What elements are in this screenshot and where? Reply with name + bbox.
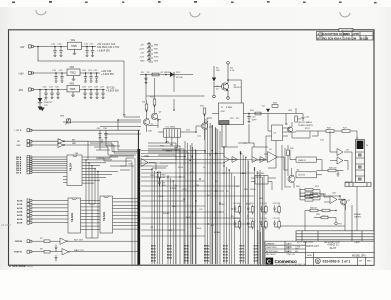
gate U11 mid <box>141 159 156 171</box>
wire control signal stubs <box>148 143 188 168</box>
svg-text:SIZE: SIZE <box>307 255 312 257</box>
svg-text:C: C <box>267 260 271 266</box>
svg-text:7812: 7812 <box>70 70 76 74</box>
svg-text:BMR2: BMR2 <box>204 251 209 253</box>
capacitor C28 rail3 out <box>95 90 99 99</box>
svg-text:LB-4601: LB-4601 <box>1 223 11 227</box>
wire ladder bus <box>300 190 326 200</box>
wire bus group F <box>241 152 249 264</box>
svg-text:8 MHZ: 8 MHZ <box>226 107 233 109</box>
ground below D1 <box>38 107 43 111</box>
svg-text:NMI: NMI <box>242 173 246 175</box>
delay element hatched <box>220 121 230 125</box>
wire right rail <box>296 131 357 140</box>
capacitor C44 <box>301 114 304 122</box>
wire U15 U16 links <box>290 150 322 175</box>
svg-text:BCT0: BCT0 <box>223 260 228 262</box>
wire extra mid verticals <box>176 125 264 264</box>
capacitor C10 <box>247 114 251 123</box>
wire bus group D <box>205 119 218 264</box>
node TP1 <box>335 222 338 225</box>
junction dots right lower <box>304 195 340 211</box>
capacitor C24 rail3 <box>50 90 54 99</box>
wire R19 down <box>287 156 289 171</box>
capacitor C34 <box>144 75 147 84</box>
resistor R28 <box>321 216 328 219</box>
svg-text:D0: D0 <box>203 167 205 169</box>
svg-text:50: 50 <box>366 145 368 147</box>
svg-text:A: A <box>317 32 319 36</box>
parts list text <box>297 241 360 248</box>
wire left-of-bus verticals <box>132 158 135 265</box>
transistor Q4 <box>201 123 207 129</box>
svg-text:R32 1K: R32 1K <box>310 207 317 209</box>
capacitor C15 rail1 <box>59 47 63 57</box>
diode D4 <box>266 109 270 113</box>
capacitor C21 rail2 out <box>89 73 93 82</box>
wire XTAL rail <box>212 113 262 115</box>
crystal labels <box>221 107 258 122</box>
svg-text:A12: A12 <box>215 180 218 183</box>
wire U3 right pins to bus <box>113 199 138 230</box>
voltage regulator VR2 7812 <box>67 69 80 76</box>
inverter gate U12a <box>58 139 70 144</box>
svg-text:VBB: VBB <box>154 53 159 55</box>
svg-text:STAT IN: STAT IN <box>14 251 22 254</box>
resistor R10 <box>145 104 148 110</box>
junction dots mid mesh <box>175 150 255 213</box>
gate U6c <box>252 157 264 163</box>
resistor R12 <box>203 108 206 114</box>
transistor Q1 <box>221 83 228 90</box>
wire R1 rail <box>140 74 193 76</box>
svg-text:7400: 7400 <box>168 230 172 232</box>
RC network row2 col1 <box>233 218 241 230</box>
wire link R1 to Q2 <box>146 75 174 101</box>
size letter circle <box>315 259 320 264</box>
wire right lower rail 1 <box>300 188 340 199</box>
capacitor C14 rail1 <box>53 47 57 57</box>
RC network row2 col3 <box>259 218 267 230</box>
node K terminal <box>227 97 230 100</box>
resistor R27 <box>342 130 350 133</box>
svg-text:PARTS LIST: PARTS LIST <box>306 245 320 248</box>
wire horizontal fanout mesh <box>141 151 254 237</box>
cluster labels <box>250 103 314 135</box>
resistor R8 <box>44 250 50 253</box>
svg-text:-16V: -16V <box>18 89 23 92</box>
R1 line labels <box>141 72 184 79</box>
wire data input stack DI0-DI7 <box>32 157 67 172</box>
wire U9 inputs <box>330 131 352 182</box>
svg-text:74S04: 74S04 <box>196 228 201 230</box>
svg-text:1N4742: 1N4742 <box>44 102 52 104</box>
resistor R7 <box>44 240 50 243</box>
diode D2 <box>170 72 174 77</box>
svg-text:B-1180: B-1180 <box>361 36 369 40</box>
capacitor C16 rail1 out <box>85 47 89 57</box>
wire misc analog <box>96 150 180 170</box>
svg-text:2N2222: 2N2222 <box>284 187 292 189</box>
wire INT run <box>32 140 58 142</box>
svg-text:74LS244: 74LS244 <box>103 211 106 221</box>
svg-text:PHI: PHI <box>196 185 200 187</box>
svg-text:POC: POC <box>176 72 181 74</box>
svg-text:023-0062-S 1 of 1: 023-0062-S 1 of 1 <box>323 260 351 264</box>
node connector pins DI0-DI7 <box>27 156 32 174</box>
svg-text:U21: U21 <box>150 227 153 229</box>
svg-text:+ 6.8UF 35V: + 6.8UF 35V <box>101 74 114 76</box>
svg-text:BA01: BA01 <box>167 247 172 250</box>
svg-text:BCT1: BCT1 <box>223 248 228 250</box>
title block approvals text <box>266 246 301 256</box>
parts list table <box>296 231 374 244</box>
wire U7 pins <box>264 154 284 170</box>
revision strip box <box>317 32 374 41</box>
svg-text:QUICK TABLE: QUICK TABLE <box>298 121 313 124</box>
wire bus group G <box>255 168 263 264</box>
svg-text:BD03: BD03 <box>151 254 156 256</box>
svg-text:BA02: BA02 <box>167 250 172 253</box>
svg-text:C54 R34: C54 R34 <box>233 218 240 220</box>
bus group F labels <box>240 245 246 262</box>
left line labels <box>15 116 108 148</box>
svg-text:Cromemco: Cromemco <box>275 259 297 264</box>
svg-text:BD01: BD01 <box>151 248 156 250</box>
resistor R30 <box>328 169 336 172</box>
RC network row1 col2 <box>246 203 254 215</box>
capacitor C29 rail3 out <box>101 90 105 99</box>
capacitor C22 rail2 out <box>95 73 99 82</box>
scattered net labels mid mesh <box>146 156 263 234</box>
bus group A labels <box>151 245 157 262</box>
transistor Q2 <box>143 119 149 125</box>
capacitor C26 rail3 out <box>83 90 87 99</box>
gate U6d <box>260 157 266 163</box>
wire U1 pin vertical drops <box>86 160 98 238</box>
svg-text:NEXT ASSY: NEXT ASSY <box>266 253 277 256</box>
svg-text:+12V C32: +12V C32 <box>101 71 112 73</box>
wire rail1 VR1 output <box>82 46 97 48</box>
power flag +5V <box>147 43 153 47</box>
svg-text:A6 IN: A6 IN <box>17 222 23 225</box>
wire R5 branch <box>213 66 215 95</box>
svg-text:C52 R32: C52 R32 <box>259 203 266 205</box>
wire right lower rail 2 <box>305 205 352 231</box>
wire U5 pins <box>252 125 296 168</box>
svg-text:74S04: 74S04 <box>158 196 163 198</box>
wire bus group C <box>185 141 195 264</box>
svg-text:REV: REV <box>367 261 372 263</box>
svg-text:7400: 7400 <box>150 175 154 177</box>
bus group D labels <box>204 245 210 262</box>
svg-text:DRAWN: DRAWN <box>266 242 275 245</box>
svg-text:DATE: DATE <box>344 33 351 36</box>
svg-text:BSY1: BSY1 <box>240 248 245 250</box>
RC network row2 col4 <box>273 218 281 230</box>
svg-text:C50 R30: C50 R30 <box>233 203 240 205</box>
title block outer <box>265 241 374 265</box>
svg-text:A3 IN: A3 IN <box>17 211 23 214</box>
transistor Q6 <box>288 176 295 183</box>
node INT input <box>27 140 32 143</box>
svg-text:BMR3: BMR3 <box>204 254 209 256</box>
svg-text:C56 R36: C56 R36 <box>259 218 266 220</box>
svg-text:JWR IN: JWR IN <box>15 241 23 243</box>
wire bus group E <box>224 164 234 264</box>
box U8 one-shot <box>255 176 268 185</box>
svg-text:BCT3: BCT3 <box>223 254 228 256</box>
capacitor C35 bypass <box>98 130 101 139</box>
resistor R33 <box>322 209 330 212</box>
wire U1 lower left pins <box>63 177 67 183</box>
svg-text:A1 IN: A1 IN <box>17 203 23 206</box>
svg-text:R2 10K: R2 10K <box>176 77 184 79</box>
junction dots R1 line <box>145 74 167 76</box>
svg-text:+8V: +8V <box>20 46 25 49</box>
svg-text:GATES: GATES <box>354 216 361 219</box>
wire rail2 input <box>34 72 68 74</box>
ground R30 <box>336 174 339 176</box>
U15 U16 labels <box>290 148 337 177</box>
capacitor C37 <box>55 245 58 252</box>
wire L INT B run <box>32 129 140 131</box>
svg-text:BUSAK: BUSAK <box>163 212 170 215</box>
svg-text:APPROVED: APPROVED <box>266 250 279 253</box>
power flag GND <box>147 59 153 63</box>
svg-text:C57 R37: C57 R37 <box>273 218 280 220</box>
svg-text:7805: 7805 <box>71 44 77 48</box>
svg-text:RFSH: RFSH <box>178 167 184 169</box>
power flag -12V <box>147 55 153 59</box>
svg-text:SLOT: SLOT <box>330 246 337 250</box>
svg-text:BD05: BD05 <box>151 260 156 262</box>
svg-text:BSY3: BSY3 <box>240 254 245 256</box>
power section labels <box>18 40 120 107</box>
gate U9a <box>337 149 352 156</box>
RC network row1 col3 <box>259 203 267 215</box>
transistor Q5 <box>287 127 292 132</box>
R1 pull-up line <box>140 73 193 83</box>
svg-text:SH: SH <box>359 261 362 263</box>
svg-text:BD00: BD00 <box>151 245 156 247</box>
wire top rail to C44 <box>296 113 303 115</box>
svg-text:VR3: VR3 <box>70 84 75 86</box>
right column labels <box>305 128 349 226</box>
wire VR1 ground pin <box>73 49 76 54</box>
svg-text:APPD: APPD <box>352 33 359 36</box>
gate labels <box>14 238 85 254</box>
Q1 labels <box>216 68 242 91</box>
wire gate outputs right <box>70 141 92 145</box>
svg-text:DI7 B: DI7 B <box>16 172 22 174</box>
svg-text:BMR5: BMR5 <box>204 260 209 262</box>
capacitor C25 rail3 <box>56 90 60 99</box>
wire Q6 links <box>284 168 294 188</box>
svg-text:VBB: VBB <box>154 45 159 47</box>
ground top of left section <box>40 108 45 112</box>
svg-text:BD02: BD02 <box>151 251 156 253</box>
bus group B labels <box>167 244 173 259</box>
oscillator module box <box>219 103 244 125</box>
resistor R32 <box>310 209 318 212</box>
node rail3 -16V input terminal <box>29 88 34 91</box>
svg-text:R31 470: R31 470 <box>310 193 319 195</box>
svg-text:BSY2: BSY2 <box>240 251 245 253</box>
svg-text:4 MHZ 12: 4 MHZ 12 <box>327 243 339 247</box>
svg-text:BCT0: BCT0 <box>223 245 228 247</box>
capacitor C19 rail2 <box>60 73 64 82</box>
wire U1 right pins fanout <box>82 157 118 183</box>
svg-text:74LS74: 74LS74 <box>298 175 306 177</box>
svg-text:BSY0: BSY0 <box>240 245 245 247</box>
wire Q2 Q3 links <box>147 106 159 132</box>
wire Q1 emitter down <box>227 90 229 97</box>
junction dots analog <box>117 105 205 143</box>
wire address stack A0-A6 <box>32 201 68 223</box>
junction dots crystal <box>223 113 250 148</box>
wire +5V distribution loop <box>38 47 124 62</box>
svg-text:-12V: -12V <box>140 57 145 59</box>
wire osc rail continue <box>262 108 296 125</box>
resistor R17 <box>295 116 298 122</box>
RC network row2 col2 <box>246 218 254 230</box>
IC U1 Z80 buffer <box>67 155 82 186</box>
mid labels <box>144 142 178 188</box>
wire to parts table <box>280 226 345 231</box>
wire NMI run <box>32 144 58 146</box>
title block text <box>266 242 372 263</box>
power flag labels <box>139 45 159 63</box>
node E8 terminal <box>227 62 230 65</box>
diode D2 bar <box>173 72 175 77</box>
svg-text:10PF: 10PF <box>252 120 258 122</box>
power flag -5V <box>147 51 153 55</box>
bus group C labels <box>184 245 190 262</box>
svg-text:A15: A15 <box>211 224 214 227</box>
wire VR3 ground pin <box>71 92 74 97</box>
wire nested routing loops <box>88 61 141 160</box>
svg-text:NMI: NMI <box>72 143 76 145</box>
wire title block left drops <box>258 228 263 265</box>
wire U2 to U3 links <box>81 201 101 230</box>
wire rail3 input <box>34 89 68 91</box>
svg-text:R30 470: R30 470 <box>329 167 337 169</box>
svg-text:A4 IN: A4 IN <box>17 214 23 217</box>
svg-text:+ 6.8UF 35V: + 6.8UF 35V <box>106 91 119 93</box>
svg-text:BCT2: BCT2 <box>223 251 228 253</box>
svg-text:12V: 12V <box>44 105 48 107</box>
svg-text:A2 IN: A2 IN <box>17 207 23 210</box>
svg-text:CHECKED: CHECKED <box>266 247 277 249</box>
wire Q1 base link <box>214 86 222 88</box>
transistor Q7 <box>341 199 347 205</box>
wire Q1 collector feed <box>227 64 229 83</box>
IC U5 divider <box>272 125 283 141</box>
wire Q1 output right <box>228 80 241 103</box>
resistor R31 <box>310 195 318 198</box>
gate U6a <box>224 157 236 163</box>
node NMI input <box>27 143 32 146</box>
svg-text:DL1 50NS: DL1 50NS <box>166 127 176 129</box>
capacitor C20 rail2 out <box>84 73 88 82</box>
svg-text:SM1: SM1 <box>259 198 263 200</box>
resistor R11 <box>153 99 156 105</box>
svg-text:BSY0: BSY0 <box>240 260 245 262</box>
capacitor C8 mid <box>158 178 161 186</box>
transistor Q3 <box>151 113 157 119</box>
svg-text:NMI: NMI <box>17 145 21 147</box>
svg-text:U21: U21 <box>146 156 149 158</box>
wire right verticals <box>296 136 357 231</box>
capacitor C18 rail2 <box>54 73 58 82</box>
wire Q3 to R12 rail <box>146 95 205 97</box>
svg-text:DM8131: DM8131 <box>298 160 306 162</box>
svg-text:PSYNC: PSYNC <box>256 177 263 179</box>
svg-text:BA00: BA00 <box>167 244 172 247</box>
svg-text:REL ECN 4016-A: REL ECN 4016-A <box>323 36 342 40</box>
svg-text:+16V: +16V <box>18 73 24 76</box>
svg-text:C30 35UF C31 4.7UF: C30 35UF C31 4.7UF <box>97 47 120 49</box>
wire osc loop <box>222 147 239 157</box>
heavy bus bar <box>137 149 140 265</box>
bus group E labels <box>223 245 229 262</box>
svg-text:WAIT OUT: WAIT OUT <box>74 249 85 252</box>
node J terminal <box>213 95 216 98</box>
Cromemco logo <box>266 258 306 266</box>
svg-text:ITEM: ITEM <box>354 242 360 244</box>
node rail2 +16V input terminal <box>29 71 34 74</box>
svg-text:VSS: VSS <box>154 61 159 63</box>
svg-text:+5V: +5V <box>140 45 144 47</box>
inverter gate U12b <box>58 143 70 148</box>
svg-text:C55 .1: C55 .1 <box>322 216 329 218</box>
svg-text:QTY: QTY <box>297 242 302 244</box>
wire U1 drop junctions <box>85 159 98 172</box>
svg-text:SPARE: SPARE <box>354 213 361 216</box>
diode D1 zener <box>38 103 42 107</box>
wire rail2 output <box>80 72 100 74</box>
power flag arrows column <box>147 43 153 63</box>
RC network row1 col1 <box>233 203 241 215</box>
right lower labels <box>310 193 361 219</box>
svg-text:B: B <box>317 36 319 40</box>
gate U6b <box>232 157 238 163</box>
svg-text:VDD: VDD <box>154 49 159 51</box>
junction dots power rails <box>37 46 104 91</box>
node L INT B input <box>27 129 32 132</box>
wire trimmer rail <box>63 122 141 134</box>
gate U10 <box>330 196 345 211</box>
svg-text:USED ON: USED ON <box>287 254 296 256</box>
svg-text:BUSAK: BUSAK <box>214 231 221 234</box>
revision strip text <box>317 30 369 40</box>
bus bar top taper <box>138 130 139 149</box>
svg-text:+12V: +12V <box>139 49 145 51</box>
svg-text:74LS244: 74LS244 <box>71 212 74 222</box>
punch hole shadows <box>36 10 350 17</box>
diode D3 <box>212 78 216 82</box>
resistor R26 <box>326 130 334 133</box>
wire delay line taps <box>158 132 196 148</box>
delay line DL1 <box>164 129 181 138</box>
capacitor C17 rail1 out <box>91 47 95 57</box>
svg-text:+5V C1-C13 .1UF: +5V C1-C13 .1UF <box>97 44 116 46</box>
IC U15 box <box>296 157 316 162</box>
svg-text:REL: REL <box>295 251 299 253</box>
capacitor C23 rail3 <box>44 90 48 99</box>
capacitor C38 <box>55 255 58 262</box>
